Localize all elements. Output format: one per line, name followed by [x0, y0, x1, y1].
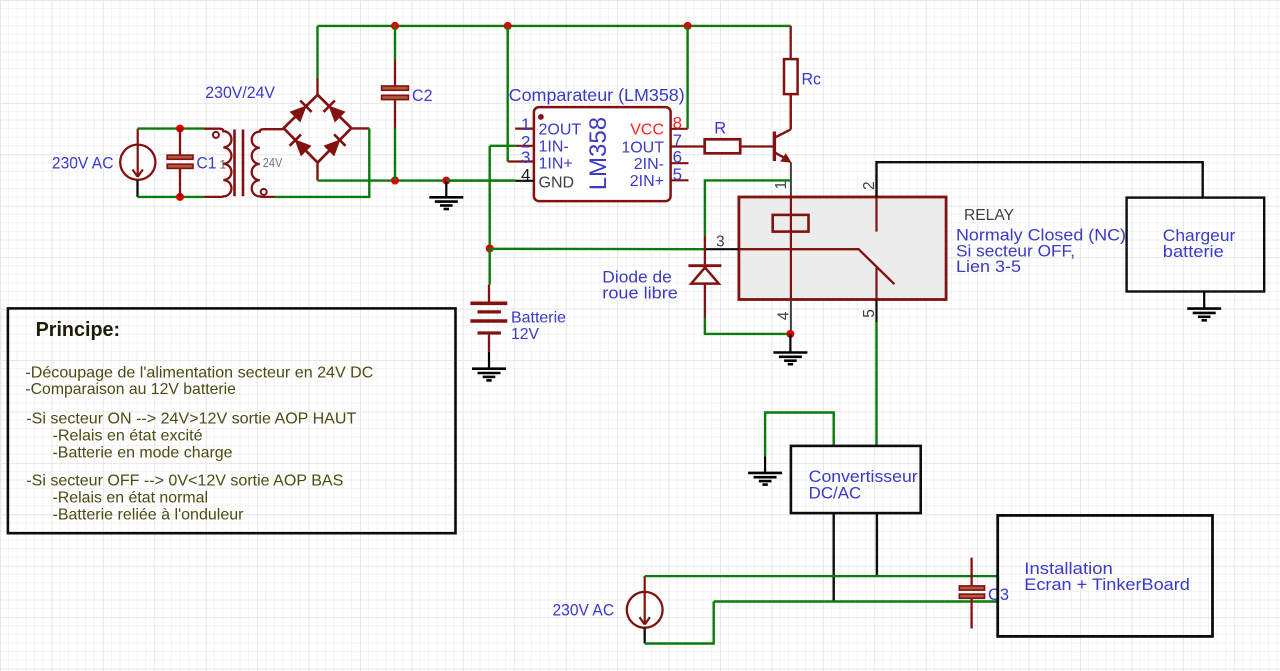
svg-text:C2: C2	[412, 86, 433, 105]
battery BT1	[470, 285, 507, 352]
U1 pin 6 stub	[671, 162, 689, 164]
block Convertisseur DC/AC	[791, 446, 921, 513]
transformer T1 230V/24V	[204, 129, 284, 197]
junction gnd tap	[442, 177, 450, 185]
svg-text:Rc: Rc	[802, 71, 822, 89]
U1 pin 8 stub	[671, 128, 688, 130]
wire V2 bottom stub	[644, 628, 646, 644]
svg-text:230V AC: 230V AC	[52, 154, 114, 173]
svg-text:2OUT: 2OUT	[539, 121, 582, 138]
svg-text:1IN-: 1IN-	[539, 139, 569, 156]
svg-text:VCC: VCC	[630, 121, 664, 138]
svg-text:LM358: LM358	[585, 117, 612, 190]
svg-text:3: 3	[716, 234, 725, 251]
svg-text:230V AC: 230V AC	[553, 601, 615, 620]
wire 1IN+ drop from rail	[507, 26, 509, 162]
wire relay pin2 to chargeur	[877, 162, 1203, 197]
svg-text:-Batterie reliée à l'onduleur: -Batterie reliée à l'onduleur	[53, 506, 245, 523]
svg-text:Ecran + TinkerBoard: Ecran + TinkerBoard	[1024, 576, 1190, 594]
svg-text:12V: 12V	[511, 326, 539, 343]
ground G5 converter	[748, 473, 782, 485]
transistor Q1	[774, 129, 791, 163]
junction VCC drop	[684, 22, 692, 30]
resistor Rc	[784, 26, 798, 129]
capacitor C3	[959, 558, 984, 629]
wire AC stub at installation edge	[997, 576, 999, 601]
junction C1 top	[176, 125, 184, 133]
wire battery tap to diode/relay	[490, 248, 705, 251]
svg-text:-Découpage de l'alimentation s: -Découpage de l'alimentation secteur en …	[25, 364, 373, 381]
svg-text:-Si secteur ON --> 24V>12V sor: -Si secteur ON --> 24V>12V sortie AOP HA…	[26, 411, 356, 428]
U1 pin 2 stub	[516, 145, 534, 147]
svg-text:5: 5	[673, 165, 682, 184]
wire to pin 2	[490, 145, 516, 147]
relay K1 body	[739, 197, 946, 300]
svg-text:-Comparaison au 12V batterie: -Comparaison au 12V batterie	[25, 381, 236, 398]
svg-text:Convertisseur: Convertisseur	[809, 468, 919, 486]
U1 pin 7 stub / wire to R	[671, 145, 705, 147]
wire gnd stem relay	[789, 334, 791, 352]
wire V1 bottom stub	[136, 180, 138, 197]
svg-text:Batterie: Batterie	[511, 310, 566, 327]
ground G2 battery	[472, 369, 506, 381]
svg-text:230V/24V: 230V/24V	[205, 84, 275, 102]
wire GND rail to pin 4	[446, 179, 515, 181]
svg-text:1: 1	[773, 181, 790, 190]
svg-text:24V: 24V	[263, 155, 283, 170]
bridge diode bottom-left	[290, 134, 311, 155]
resistor R	[705, 139, 741, 153]
svg-text:1IN+: 1IN+	[539, 155, 573, 172]
wire GND rail	[318, 179, 516, 181]
wire AC neutral lower	[714, 600, 998, 602]
svg-text:3: 3	[521, 148, 530, 167]
U1 pin 3 stub	[508, 160, 534, 162]
voltage source V2 230V AC	[627, 576, 663, 628]
relay pin 3 stub	[705, 248, 739, 250]
junction relay pin4 gnd	[786, 330, 794, 338]
diode bridge	[284, 95, 352, 163]
wire diode cathode riser	[705, 180, 791, 236]
U1 pin 4 stub	[515, 180, 534, 182]
svg-text:-Si secteur OFF --> 0V<12V sor: -Si secteur OFF --> 0V<12V sortie AOP BA…	[26, 473, 343, 490]
wire bridge right corner to riser	[352, 127, 369, 129]
bridge diode top-right	[324, 101, 345, 122]
ground G1	[445, 181, 447, 197]
svg-text:8: 8	[673, 113, 682, 132]
relay contact stub pin 2	[875, 197, 877, 232]
svg-text:-Relais en état excité: -Relais en état excité	[53, 428, 203, 445]
diode D5 roue libre	[688, 236, 721, 318]
wire V2 bottom return	[645, 602, 714, 644]
svg-text:4: 4	[521, 165, 530, 184]
relay contact stub pin 5	[875, 267, 877, 299]
U1 pin 1 stub	[515, 128, 534, 130]
U1 pin 5 stub	[671, 179, 689, 181]
svg-text:GND: GND	[539, 174, 575, 191]
voltage source V1 230V AC	[120, 129, 155, 180]
wire R to base	[740, 145, 773, 147]
wire diode anode to gnd junction	[705, 318, 791, 334]
svg-text:batterie: batterie	[1163, 243, 1224, 261]
relay switch arm pin 3	[739, 249, 895, 284]
wire bridge bottom stub	[316, 163, 318, 181]
bridge diode bottom-right	[324, 134, 345, 155]
svg-text:2IN-: 2IN-	[634, 156, 664, 173]
wire converter output 1	[833, 513, 835, 601]
svg-text:DC/AC: DC/AC	[809, 484, 862, 502]
wire collector	[790, 94, 792, 129]
wire converter gnd L	[765, 413, 834, 457]
svg-text:-Batterie en mode charge: -Batterie en mode charge	[53, 445, 233, 462]
relay coil box	[773, 215, 809, 232]
svg-text:roue libre: roue libre	[602, 284, 678, 303]
junction C1 bottom	[176, 193, 184, 201]
svg-text:1: 1	[521, 115, 530, 134]
svg-text:1OUT: 1OUT	[621, 139, 664, 156]
wire battery net vertical	[489, 146, 491, 249]
ground G3 relay	[773, 353, 807, 365]
svg-text:R: R	[714, 119, 726, 137]
svg-text:C1: C1	[197, 153, 217, 172]
wire chargeur gnd stem	[1203, 292, 1205, 309]
junction C2 top	[391, 22, 399, 30]
wire top +24V rail	[318, 25, 791, 27]
wire VCC drop from rail	[686, 26, 688, 129]
wire AC phase upper	[645, 575, 998, 577]
svg-text:Lien 3-5: Lien 3-5	[956, 258, 1021, 276]
wire converter output 2	[876, 513, 878, 576]
wire primary top	[138, 127, 205, 129]
svg-text:2IN+: 2IN+	[630, 173, 664, 190]
capacitor C1	[167, 129, 193, 197]
wire battery gnd stem	[488, 352, 490, 369]
note box Principe	[8, 308, 456, 533]
wire top rail left drop to bridge	[316, 26, 318, 78]
relay coil wire pin1-pin4	[790, 197, 792, 300]
wire primary bottom	[138, 196, 205, 198]
svg-text:-Relais en état normal: -Relais en état normal	[53, 490, 209, 507]
wire battery drop	[489, 249, 491, 285]
op-amp U1 LM358 body	[534, 107, 671, 201]
capacitor C2	[382, 26, 409, 181]
U1 pin1 marker dot	[538, 114, 544, 120]
ground G4 chargeur	[1187, 309, 1221, 321]
block Chargeur batterie	[1127, 198, 1265, 292]
wire relay pin5 down	[875, 300, 877, 323]
wire converter gnd stem	[764, 456, 766, 472]
junction C2 bottom	[391, 177, 399, 185]
svg-text:RELAY: RELAY	[964, 207, 1014, 224]
block Installation	[998, 515, 1213, 636]
junction 1IN+ drop	[504, 22, 512, 30]
bridge diode top-left	[291, 101, 312, 122]
svg-text:Comparateur (LM358): Comparateur (LM358)	[509, 85, 685, 105]
wire relay pin 4	[790, 300, 792, 334]
svg-text:Principe:: Principe:	[36, 318, 121, 341]
wire emitter to relay pin 1	[790, 163, 792, 198]
junction battery tap	[486, 245, 494, 253]
